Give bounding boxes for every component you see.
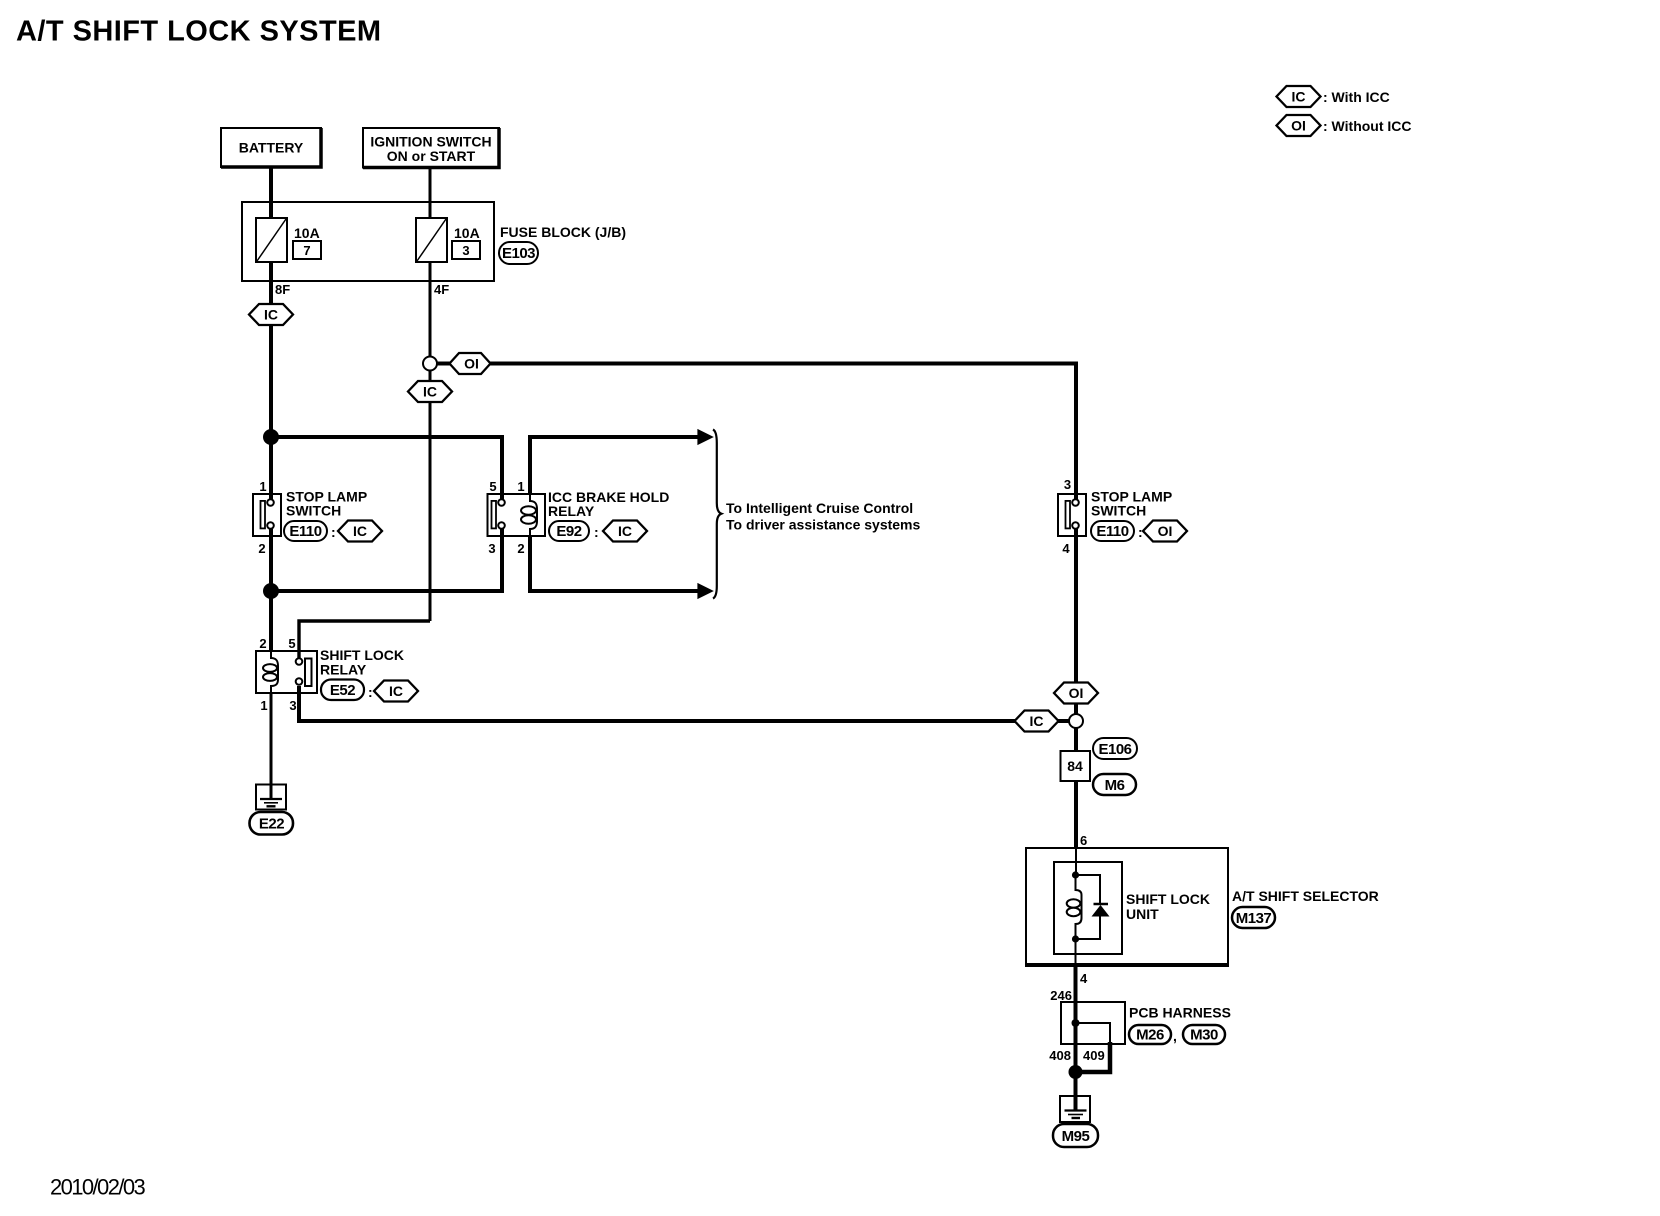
A/T shift selector outer box: [1025, 848, 1229, 965]
svg-text:OI: OI: [1069, 685, 1084, 701]
svg-text:IC: IC: [353, 523, 367, 539]
stop lamp switch left (E110 IC): [253, 494, 281, 536]
fuse 7 (10A): [256, 218, 287, 262]
svg-text:OI: OI: [464, 356, 479, 372]
svg-text:4: 4: [1062, 541, 1070, 556]
wire shift lock relay pin3 long run right: [299, 686, 1076, 721]
svg-text:To driver assistance systems: To driver assistance systems: [726, 517, 921, 533]
svg-text:RELAY: RELAY: [548, 503, 595, 519]
svg-text:10A: 10A: [294, 225, 320, 241]
diode branch wires: [1076, 875, 1101, 903]
fuse 3 (10A): [416, 218, 447, 262]
battery box: [221, 128, 321, 167]
svg-text:408: 408: [1049, 1048, 1071, 1063]
svg-text:E103: E103: [502, 245, 535, 262]
PCB harness box: [1061, 1002, 1125, 1044]
node dot in PCB harness: [1072, 1019, 1080, 1027]
shift lock unit inner box: [1054, 862, 1122, 954]
connector E22: [250, 812, 294, 835]
connector E110 right: [1091, 521, 1143, 541]
wire OI horizontal to right stop lamp switch: [430, 364, 1076, 501]
svg-text:246: 246: [1050, 988, 1072, 1003]
connector E110 left: [284, 521, 336, 541]
hexagon IC for ICC brake hold relay: [603, 521, 647, 542]
stop lamp switch right (E110 OI): [1058, 494, 1086, 536]
svg-text:2010/02/03: 2010/02/03: [50, 1175, 145, 1200]
svg-text:E92: E92: [556, 523, 581, 540]
svg-text:3: 3: [462, 243, 469, 258]
node dot bottom of coil: [1072, 935, 1079, 942]
svg-text:ON or START: ON or START: [387, 148, 476, 164]
wire ICC relay pin 1 up and right to arrow: [530, 437, 700, 494]
hexagon IC for shift lock relay: [374, 681, 418, 702]
connector M95: [1053, 1124, 1098, 1147]
svg-text:FUSE BLOCK (J/B): FUSE BLOCK (J/B): [500, 224, 626, 240]
connector M30: [1183, 1025, 1225, 1044]
fuse 7 number box: [293, 241, 321, 259]
fuse block (J/B) box: [242, 202, 494, 281]
wire left switch pin2 down to lower junction: [269, 528, 273, 651]
svg-text:A/T SHIFT LOCK SYSTEM: A/T SHIFT LOCK SYSTEM: [16, 16, 382, 48]
svg-text:3: 3: [488, 541, 495, 556]
wire 4F feed to shift lock relay pin 5: [299, 621, 430, 658]
junction circle right: [1069, 714, 1083, 728]
svg-text:M95: M95: [1062, 1128, 1090, 1145]
connector hexagon OI on horizontal wire: [450, 353, 491, 374]
wire selector to PCB harness: [1074, 965, 1078, 1072]
svg-text:SWITCH: SWITCH: [1091, 503, 1146, 519]
connector E106: [1093, 738, 1137, 759]
svg-text:E110: E110: [289, 523, 321, 540]
ground symbol E22: [256, 785, 286, 810]
svg-text:BATTERY: BATTERY: [239, 140, 304, 156]
svg-text::: :: [368, 684, 373, 700]
svg-text:1: 1: [517, 479, 524, 494]
wire into shift lock unit: [1075, 848, 1077, 875]
node dot top of coil: [1072, 871, 1079, 878]
wire right switch pin4 down to shift lock unit: [1074, 528, 1078, 848]
svg-text:5: 5: [288, 636, 295, 651]
node junction dot lower left: [263, 583, 279, 599]
svg-text:,: ,: [1173, 1028, 1177, 1044]
arrowhead to intelligent cruise control: [698, 430, 713, 444]
svg-text:3: 3: [1064, 477, 1071, 492]
svg-text:A/T SHIFT SELECTOR: A/T SHIFT SELECTOR: [1232, 888, 1379, 904]
wire 8F battery feed down to stop lamp switch: [269, 262, 273, 500]
svg-text:1: 1: [260, 698, 267, 713]
svg-text:IC: IC: [423, 384, 437, 400]
svg-text::: :: [1138, 524, 1143, 540]
svg-text:7: 7: [303, 243, 310, 258]
hexagon OI for right stop lamp switch: [1143, 521, 1187, 542]
svg-text:2: 2: [259, 636, 266, 651]
svg-text:OI: OI: [1158, 523, 1173, 539]
svg-text:E22: E22: [259, 816, 284, 833]
shift lock relay (E52 IC): [256, 651, 317, 693]
svg-text:1: 1: [259, 479, 266, 494]
connector hexagon IC on 4F wire: [408, 381, 452, 402]
svg-text:: With ICC: : With ICC: [1323, 89, 1390, 105]
svg-text:5: 5: [489, 479, 496, 494]
svg-text:: Without ICC: : Without ICC: [1323, 118, 1412, 134]
svg-text::: :: [594, 524, 599, 540]
svg-text:8F: 8F: [275, 282, 290, 297]
node junction dot bottom: [1069, 1065, 1083, 1079]
hexagon OI on right wire: [1054, 683, 1098, 704]
wire to ground M95: [1074, 1072, 1078, 1110]
svg-text:IC: IC: [1292, 89, 1306, 105]
arrowhead to driver assistance systems: [698, 584, 713, 598]
svg-text::: :: [331, 524, 336, 540]
connector E92: [549, 521, 599, 541]
svg-text:SWITCH: SWITCH: [286, 503, 341, 519]
svg-text:UNIT: UNIT: [1126, 906, 1159, 922]
svg-text:10A: 10A: [454, 225, 480, 241]
svg-text:IC: IC: [264, 307, 278, 323]
svg-text:RELAY: RELAY: [320, 662, 367, 678]
legend IC hexagon: [1277, 86, 1321, 107]
wire battery to fuse block: [269, 167, 273, 220]
hexagon IC for left stop lamp switch: [338, 521, 382, 542]
svg-text:SHIFT LOCK: SHIFT LOCK: [1126, 891, 1210, 907]
fuse 3 number box: [452, 241, 480, 259]
svg-text:84: 84: [1067, 758, 1083, 774]
wire ICC relay pin 2 down and right to arrow: [530, 536, 700, 591]
svg-text:E110: E110: [1096, 523, 1128, 540]
svg-text:2: 2: [258, 541, 265, 556]
svg-text:M26: M26: [1136, 1027, 1164, 1044]
ignition switch box: [363, 128, 499, 168]
junction box 84: [1061, 751, 1091, 781]
ground symbol M95: [1060, 1096, 1090, 1122]
svg-text:E106: E106: [1098, 741, 1131, 758]
svg-text:409: 409: [1083, 1048, 1105, 1063]
svg-text:2: 2: [517, 541, 524, 556]
wire shift lock relay pin1 to ground: [270, 693, 273, 799]
diode: [1092, 904, 1110, 917]
connector hexagon IC on 8F wire: [249, 304, 293, 325]
svg-text:IC: IC: [1030, 713, 1044, 729]
shift lock unit coil: [1067, 875, 1082, 939]
svg-text:M30: M30: [1190, 1027, 1218, 1044]
svg-text:M6: M6: [1105, 777, 1125, 794]
svg-text:IC: IC: [618, 523, 632, 539]
junction circle 4F/OI: [423, 357, 437, 371]
connector E103: [499, 242, 538, 264]
connector M137: [1232, 907, 1275, 928]
svg-text:3: 3: [289, 698, 296, 713]
svg-text:4: 4: [1080, 971, 1088, 986]
wire out of shift lock unit: [1075, 939, 1077, 965]
svg-text:4F: 4F: [434, 282, 449, 297]
svg-text:E52: E52: [330, 682, 355, 699]
brace for ICC arrows: [713, 430, 721, 599]
svg-text:M137: M137: [1236, 910, 1272, 927]
wire ignition to fuse block: [429, 167, 432, 220]
svg-text:6: 6: [1080, 833, 1087, 848]
svg-text:PCB HARNESS: PCB HARNESS: [1129, 1005, 1231, 1021]
connector M26: [1129, 1025, 1177, 1044]
node junction dot upper left: [263, 429, 279, 445]
wire branch to ICC brake hold relay pin 5: [271, 437, 502, 500]
svg-text:To Intelligent Cruise Control: To Intelligent Cruise Control: [726, 500, 913, 516]
wire lower branch to ICC relay pin 3: [271, 528, 502, 591]
wire 4F ignition feed down: [429, 262, 432, 621]
connector E52: [321, 680, 373, 701]
hexagon IC on long run: [1015, 711, 1059, 732]
svg-text:IC: IC: [389, 683, 403, 699]
legend OI hexagon: [1277, 115, 1321, 136]
ICC brake hold relay (E92 IC): [488, 494, 546, 536]
connector M6: [1093, 774, 1136, 795]
svg-text:OI: OI: [1291, 118, 1306, 134]
wire PCB harness branch 409: [1076, 1023, 1111, 1044]
